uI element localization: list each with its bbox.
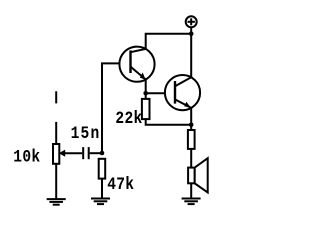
wire [55, 164, 57, 199]
wire [190, 149, 192, 168]
resistor R4 [188, 130, 195, 149]
ground [91, 199, 110, 205]
transistor Q1 [119, 47, 154, 82]
node: supply junction [189, 31, 194, 36]
wire [55, 122, 57, 144]
resistor R2 47k [99, 159, 106, 179]
wire [102, 63, 131, 153]
input stub [55, 91, 57, 103]
wire [145, 93, 147, 99]
wire [101, 179, 103, 199]
wire [190, 125, 192, 130]
ground [182, 199, 201, 205]
wire [190, 108, 192, 125]
wire [146, 34, 192, 49]
svg-text:47k: 47k [107, 175, 134, 195]
wire [190, 183, 192, 198]
wire [146, 92, 175, 94]
wire [146, 119, 192, 125]
wiper arrow [59, 150, 82, 157]
power supply terminal [186, 16, 197, 33]
wire [190, 34, 192, 78]
node C [189, 123, 194, 128]
node B [143, 91, 148, 96]
svg-text:10k: 10k [13, 148, 40, 168]
transistor Q2 [165, 75, 200, 110]
capacitor C1 [83, 147, 89, 159]
svg-text:15n: 15n [71, 124, 101, 144]
svg-text:22k: 22k [115, 109, 142, 129]
resistor R3 22k [142, 99, 150, 119]
potentiometer R1 [53, 144, 59, 164]
wire [90, 152, 102, 154]
node A [100, 151, 105, 156]
speaker LS1 [188, 158, 208, 192]
ground [47, 199, 66, 205]
wire [145, 80, 147, 94]
